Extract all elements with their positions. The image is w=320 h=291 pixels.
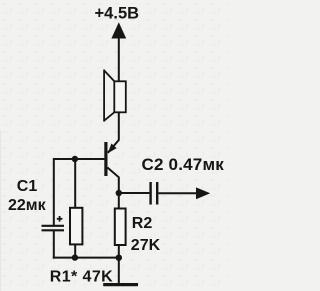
svg-text:R2: R2 [132, 215, 153, 232]
svg-text:R1* 47K: R1* 47K [50, 268, 113, 285]
node R1/bottom junction [72, 254, 78, 260]
capacitor C2 [121, 192, 149, 194]
resistor R1 [70, 208, 82, 245]
base wire [54, 159, 105, 225]
svg-text:27K: 27K [131, 237, 161, 254]
emitter arrowhead [108, 144, 117, 154]
transistor VT1 (PNP) [104, 142, 107, 176]
svg-text:C1: C1 [17, 178, 38, 195]
background paper [0, 0, 228, 291]
bottom wire [53, 257, 119, 259]
capacitor C1 (electrolytic) [42, 216, 65, 230]
wire R1 top [74, 159, 76, 208]
wire speaker to transistor emitter [108, 112, 119, 153]
svg-text:+4.5В: +4.5В [95, 4, 140, 22]
ground [118, 258, 120, 285]
power arrow up [111, 22, 126, 38]
speaker BA1 [104, 70, 126, 122]
resistor R2 [115, 209, 126, 246]
collector lead [107, 168, 118, 194]
wire R2 bottom [118, 245, 120, 258]
wire collector to R2 [118, 193, 120, 208]
node base/R1 junction [72, 156, 78, 162]
node ground junction [116, 255, 122, 261]
svg-text:22мк: 22мк [8, 197, 47, 214]
node collector junction [116, 190, 122, 196]
wire R1 bottom [74, 245, 76, 258]
svg-text:C2 0.47мк: C2 0.47мк [142, 155, 225, 174]
output wire with arrow [158, 192, 197, 194]
wire C1 bottom [53, 231, 55, 259]
